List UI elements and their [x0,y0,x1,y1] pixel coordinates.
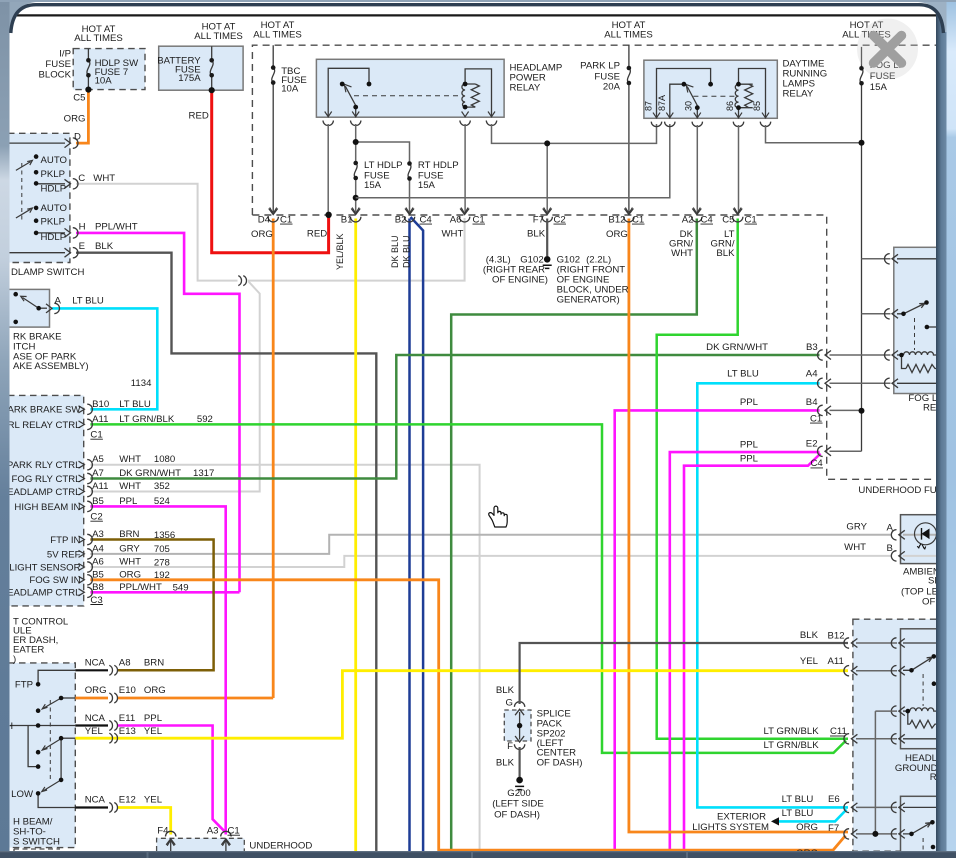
svg-text:E13: E13 [119,726,136,737]
svg-text:WHT: WHT [844,542,866,553]
fog relay internals [897,259,940,384]
switch pin connectors D C H E [65,138,79,148]
svg-text:NCA: NCA [85,713,106,724]
svg-text:LIGHTS SYSTEM: LIGHTS SYSTEM [692,822,769,833]
svg-text:A: A [887,523,894,534]
park brake switch box [0,289,50,327]
svg-text:BLK: BLK [496,685,515,696]
svg-text:B12: B12 [828,631,845,642]
wire ORG 192: BCM B5 to module F7 [90,580,845,850]
BCM connector box C1-C3 [8,395,84,606]
svg-text:BLOCK: BLOCK [38,69,71,80]
svg-text:LT BLU: LT BLU [782,808,814,819]
svg-text:NCA: NCA [85,795,106,806]
svg-text:592: 592 [197,414,213,425]
svg-text:I/P: I/P [59,48,71,59]
svg-text:PARK RLY CTRL: PARK RLY CTRL [7,460,81,471]
svg-text:5V REF: 5V REF [47,549,81,560]
inner relay 2 connectors and internals [891,802,905,812]
wire DRL85 to fog fuse junction [766,125,862,143]
X close button [857,19,918,80]
svg-text:15A: 15A [364,180,382,191]
svg-text:B12: B12 [608,214,625,225]
svg-text:B5: B5 [92,569,104,580]
DRL relay internals [657,69,766,119]
svg-text:EADLAMP CTRL: EADLAMP CTRL [7,588,81,599]
svg-text:B: B [887,543,893,554]
headlamp switch internals [8,143,65,253]
svg-text:RED: RED [189,110,209,121]
svg-text:LT HDLP: LT HDLP [364,160,403,171]
wire LT BLU: exterior lights arrow to module E6 [779,810,847,822]
svg-text:YEL: YEL [800,656,819,667]
wire LT BLU: fuseblock A4 down to module E6 [697,383,848,807]
svg-text:RELAY: RELAY [783,88,814,99]
right scrollbar light strip [947,0,956,858]
junction battery fuse output [209,87,215,93]
ambient sensor connectors and photodiode [891,530,905,540]
svg-text:1317: 1317 [193,468,214,479]
svg-text:HDLP: HDLP [41,183,67,194]
svg-text:PKLP: PKLP [41,169,66,180]
svg-text:E10: E10 [119,685,136,696]
svg-text:20A: 20A [603,81,621,92]
svg-text:ALL TIMES: ALL TIMES [604,29,653,40]
svg-text:E6: E6 [828,794,840,805]
svg-text:WHT: WHT [119,557,141,568]
svg-text:UNDERHOOD FUSE: UNDERHOOD FUSE [858,485,949,496]
underhood fuse block (top) dashed outline [252,45,936,479]
svg-text:B4: B4 [806,397,818,408]
svg-text:ORG: ORG [796,822,818,833]
svg-text:OF ENGINE): OF ENGINE) [492,274,548,285]
wire BLK splice F down to G200 [518,747,520,777]
svg-text:BLK: BLK [496,758,515,769]
svg-text:ORG: ORG [64,114,86,125]
svg-text:C: C [78,173,85,184]
headlamp module outer dashed box [853,619,943,851]
svg-text:RED: RED [307,228,327,239]
fuseblock boundary to fog relay gray rows B3 A4 [830,355,891,383]
svg-text:AUTO: AUTO [41,203,67,214]
svg-text:ORG: ORG [606,229,628,240]
window top edge line and rounded corners [11,5,944,33]
svg-text:87A: 87A [657,95,667,111]
svg-text:RELAY: RELAY [510,82,541,93]
svg-text:EXTERIOR: EXTERIOR [717,812,766,823]
svg-text:278: 278 [154,557,170,568]
svg-text:B5: B5 [92,496,104,507]
svg-text:DK BLU: DK BLU [390,235,400,268]
BCM lower box inline connectors [109,665,117,675]
window rounded-corner outside fills [10,0,37,32]
wire relay30 to RED junction [327,124,329,214]
wire RED: battery fuse to relay 30 junction [212,91,329,253]
svg-text:B2: B2 [395,214,407,225]
right window dark border band [936,0,947,858]
headlamp module outer boundary connectors [844,638,858,648]
headlamp module inner box 2 [901,796,943,852]
svg-text:G200: G200 [507,788,530,799]
svg-text:OF DASH): OF DASH) [537,758,583,769]
underhood fuse block (bottom) box [157,838,245,851]
svg-text:AKE ASSEMBLY): AKE ASSEMBLY) [13,361,89,372]
svg-text:PPL: PPL [119,496,138,507]
headlamp power relay box [316,59,504,117]
svg-text:S SWITCH: S SWITCH [13,837,60,848]
svg-text:BLK: BLK [527,228,546,239]
svg-text:PPL: PPL [740,439,759,450]
fog relay pin connectors [885,254,899,264]
svg-text:YEL/BLK: YEL/BLK [335,233,345,270]
inline connector on WHT wire [238,276,246,286]
wire PPL E2: off-page up to fuseblock E2 [670,452,820,851]
wire PPL/WHT: switch H to BCM B8 [76,233,240,592]
svg-text:HDLP: HDLP [41,232,67,243]
wire ORG: conn B12 to module F7 [629,219,848,833]
svg-text:B1: B1 [341,214,353,225]
wire LT GRN/BLK: conn C5 to module C11 [657,219,848,739]
svg-text:HIGH BEAM IN: HIGH BEAM IN [14,502,80,513]
svg-text:A3: A3 [207,825,219,836]
svg-text:LT GRN/BLK: LT GRN/BLK [764,726,820,737]
svg-text:F: F [507,741,513,752]
BCM lower box internals [10,670,75,807]
svg-text:BRN: BRN [144,657,164,668]
svg-text:86: 86 [725,101,735,111]
svg-text:WHT: WHT [119,481,141,492]
svg-text:PPL: PPL [740,454,759,465]
svg-text:WHT: WHT [119,454,141,465]
wire 87A branch to DRL relay [356,124,670,198]
fuse FOG LP 15A (wire + element + feed to fog relay) [861,47,863,451]
wire relay85 loop to DRL 87 and F7 [492,124,657,212]
PPL E2 gray to fog fuse vertical [830,450,862,452]
svg-text:15A: 15A [870,82,888,93]
gray rows boundary to inner relays [856,643,897,834]
BCM lower-left corner dashed stub [14,849,60,851]
fuse PARK LP 20A (wire + element) [628,45,630,212]
svg-text:LT BLU: LT BLU [119,399,151,410]
svg-text:A7: A7 [92,468,104,479]
wire YEL: BCM E13 to module A11 [75,671,848,739]
svg-text:LIGHT SENSOR: LIGHT SENSOR [9,562,80,573]
svg-text:87: 87 [644,101,654,111]
svg-text:DK GRN/WHT: DK GRN/WHT [706,342,768,353]
schematic page top frame line [14,14,936,16]
svg-text:GRY: GRY [846,522,867,533]
headlamp grounding relay inner box [901,629,943,749]
wire BLK: switch E down off-page [76,253,376,851]
svg-text:192: 192 [154,570,170,581]
wire DK BLU 1: conn B2 down off-page [408,219,411,852]
exterior lights arrow [771,817,779,825]
mouse cursor [489,506,508,527]
svg-text:OF DASH): OF DASH) [494,809,540,820]
svg-text:WHT: WHT [442,228,464,239]
wire DK GRN/WHT 1317: BCM A7 to fuseblock B3 [90,355,819,479]
wire relay86 to conn A6 [464,124,466,212]
daytime running lamps relay box [644,60,777,118]
BCM lower box row wires (black segments) [75,670,108,807]
svg-text:E11: E11 [119,713,135,724]
svg-text:A2: A2 [682,214,694,225]
wire DRL86 to conn C5 [738,125,740,212]
svg-text:FUSE: FUSE [45,59,71,70]
svg-text:D: D [74,132,81,143]
svg-text:1080: 1080 [154,454,175,465]
wire DRL30 to conn A2 [696,125,698,212]
svg-text:ALL TIMES: ALL TIMES [194,31,243,42]
wire YEL: BCM E12 to conn F4 [117,808,171,835]
svg-text:RL RELAY CTRL: RL RELAY CTRL [8,420,82,431]
svg-text:352: 352 [154,481,170,492]
park brake switch internals [21,296,47,308]
svg-text:BLK: BLK [800,630,819,641]
wire relay87 to B1 with LT/RT HDLP fuses [356,124,410,212]
headlamp relay pin arrows and connectors below box [325,112,495,117]
main dashed-line connectors y=215 [268,209,278,223]
svg-text:E12: E12 [119,795,136,806]
fuse BATTERY 175A [211,46,213,90]
svg-text:A4: A4 [92,543,104,554]
svg-text:BRN: BRN [119,529,139,540]
svg-text:A11: A11 [828,656,844,667]
svg-text:ALL TIMES: ALL TIMES [253,29,302,40]
wire grounding relay coil row to F7 row [875,711,897,834]
headlamp switch box [8,133,70,262]
svg-text:DLAMP SWITCH: DLAMP SWITCH [11,267,84,278]
svg-text:ORG: ORG [144,685,166,696]
battery fuse box [159,46,243,90]
svg-text:RE: RE [923,402,936,413]
svg-text:GENERATOR): GENERATOR) [557,294,620,305]
svg-text:10A: 10A [281,84,299,95]
svg-text:1356: 1356 [154,530,175,541]
svg-text:ORG: ORG [85,685,107,696]
svg-text:WHT: WHT [93,173,115,184]
svg-text:549: 549 [173,583,189,594]
svg-text:G: G [506,698,513,709]
svg-text:A11: A11 [92,414,108,425]
svg-text:15A: 15A [418,180,436,191]
svg-text:A6: A6 [450,214,462,225]
svg-text:BLK: BLK [95,241,114,252]
wire BLK splice G up and right to module B12 [520,643,848,704]
svg-text:YEL: YEL [144,795,163,806]
I/P fuse block box [73,49,145,90]
svg-text:PKLP: PKLP [41,216,66,227]
svg-text:LT GRN/BLK: LT GRN/BLK [764,740,820,751]
wire DK BLU 2: conn B2/C4 diagonal down off-page [411,217,424,851]
svg-text:175A: 175A [178,73,201,84]
connector labels on main dashed line [258,214,757,225]
wire GRY 705: BCM A4 to ambient sensor A [90,535,937,554]
svg-text:B3: B3 [806,342,818,353]
svg-text:E: E [79,241,85,252]
svg-text:PPL/WHT: PPL/WHT [119,582,162,593]
wire DK GRN/WHT: conn A2 loop down off-page [451,219,697,852]
svg-text:C5: C5 [73,93,85,104]
wire ORG: IP fuse C5 to switch D [76,91,88,144]
svg-text:FTP IN: FTP IN [50,535,80,546]
svg-text:(LEFT SIDE: (LEFT SIDE [492,799,544,810]
headlamp power relay internals [328,68,491,117]
svg-text:PPL: PPL [740,397,759,408]
svg-text:E2: E2 [806,438,818,449]
svg-text:EATER: EATER [13,645,44,656]
fuse TBC 10A (wire + element) [272,45,274,212]
svg-text:DK GRN/WHT: DK GRN/WHT [119,468,181,479]
wire PPL C4: off-page up joining E2 [684,454,821,852]
svg-text:A4: A4 [806,369,818,380]
wire YEL/BLK: conn B1 down off-page [354,219,357,852]
splice pack internals [519,712,521,740]
fuseblock boundary connectors (left-facing) [818,350,832,360]
svg-text:A5: A5 [92,454,104,465]
svg-text:PPL: PPL [144,713,163,724]
svg-text:524: 524 [154,496,171,507]
svg-text:DK BLU: DK BLU [402,235,412,268]
svg-text:ORG: ORG [251,229,273,240]
PPL B4 gray to fog fuse vertical [830,409,862,411]
grounding relay internals [903,643,940,739]
svg-text:EADLAMP CTRL: EADLAMP CTRL [7,487,81,498]
fog lamp relay feeds [862,259,891,314]
svg-text:10A: 10A [95,76,113,87]
wire PPL: BCM E11 to conn A3/C1 [117,726,225,832]
svg-text:FOG RLY CTRL: FOG RLY CTRL [12,474,82,485]
svg-text:LOW: LOW [11,789,34,800]
svg-text:A3: A3 [92,529,104,540]
left window bar [0,0,10,858]
svg-text:F7: F7 [828,823,839,834]
wire ORG: conn D4 to BCM E10 [75,219,273,699]
wire PPL B4: off-page up to fuseblock B4 [615,410,820,851]
svg-text:LT BLU: LT BLU [782,794,814,805]
svg-text:705: 705 [154,544,170,555]
ground G102 [546,219,548,257]
svg-text:LT BLU: LT BLU [727,369,759,380]
ground G200 [516,777,523,784]
svg-text:OF: OF [922,597,935,608]
svg-text:A6: A6 [92,557,104,568]
svg-text:B10: B10 [92,399,109,410]
svg-text:ORG: ORG [119,569,141,580]
svg-text:F7: F7 [533,214,544,225]
svg-text:B8: B8 [92,582,104,593]
svg-text:F4: F4 [157,825,169,836]
svg-text:H: H [79,222,86,233]
svg-text:30: 30 [684,101,694,111]
svg-text:C4: C4 [811,458,824,469]
svg-text:FOG SW IN: FOG SW IN [29,575,80,586]
svg-text:D4: D4 [258,214,271,225]
svg-text:LT BLU: LT BLU [72,295,104,306]
svg-text:1134: 1134 [131,378,152,389]
wire WHT: switch C to inline conn to relay A6 and BCM A11(352) [76,184,465,281]
svg-text:C5: C5 [722,214,734,225]
junction C5 [85,87,91,93]
svg-text:FTP: FTP [15,680,33,691]
svg-text:LT GRN/BLK: LT GRN/BLK [119,414,175,425]
conn F4 and A3/C1 (bottom box, arrows up) [166,831,176,845]
wire WHT 1080: BCM A5 down off-page [90,465,479,851]
wire PPL 524: BCM B5 to conn A3/C1 [90,506,225,834]
fuse HDLP SW FUSE 7 (wire + element) [87,49,89,90]
svg-text:A8: A8 [119,657,131,668]
DRL relay pin arrows and connectors below box [653,113,769,118]
BCM C1-C3 pin connectors [79,406,85,596]
svg-text:GRY: GRY [119,543,140,554]
svg-text:ALL TIMES: ALL TIMES [74,33,123,44]
bottom window bar [0,851,956,858]
svg-text:PARK LP: PARK LP [580,61,620,72]
svg-text:A11: A11 [92,481,108,492]
svg-text:85: 85 [752,101,762,111]
svg-text:WHT: WHT [671,248,693,259]
svg-text:YEL: YEL [144,726,163,737]
svg-text:PPL/WHT: PPL/WHT [95,222,138,233]
svg-text:R: R [930,772,937,783]
svg-text:ARK BRAKE SW: ARK BRAKE SW [7,405,81,416]
svg-text:A: A [55,295,62,306]
ambient light sensor box [901,515,943,564]
arrows into dashed line from above [270,208,742,214]
splice pack SP202 box [504,710,531,741]
svg-text:RT HDLP: RT HDLP [418,160,459,171]
wire WHT 278: BCM A6 to ambient sensor B [90,556,937,567]
svg-text:): ) [13,654,16,665]
wire LT GRN/BLK 592: BCM A11 to module C11 [90,424,846,753]
BCM connector box E (lower) [8,663,75,848]
wire BRN 1356: BCM A3 to BCM A8 [90,540,213,671]
svg-text:YEL: YEL [85,726,104,737]
fog lamp relay box [894,247,944,393]
wire LT BLU 1134: park brake A to BCM B10 [52,308,157,409]
svg-text:BLK: BLK [716,248,735,259]
svg-text:AUTO: AUTO [41,155,67,166]
svg-text:NCA: NCA [85,657,106,668]
inner relay 1 connectors [891,638,905,648]
